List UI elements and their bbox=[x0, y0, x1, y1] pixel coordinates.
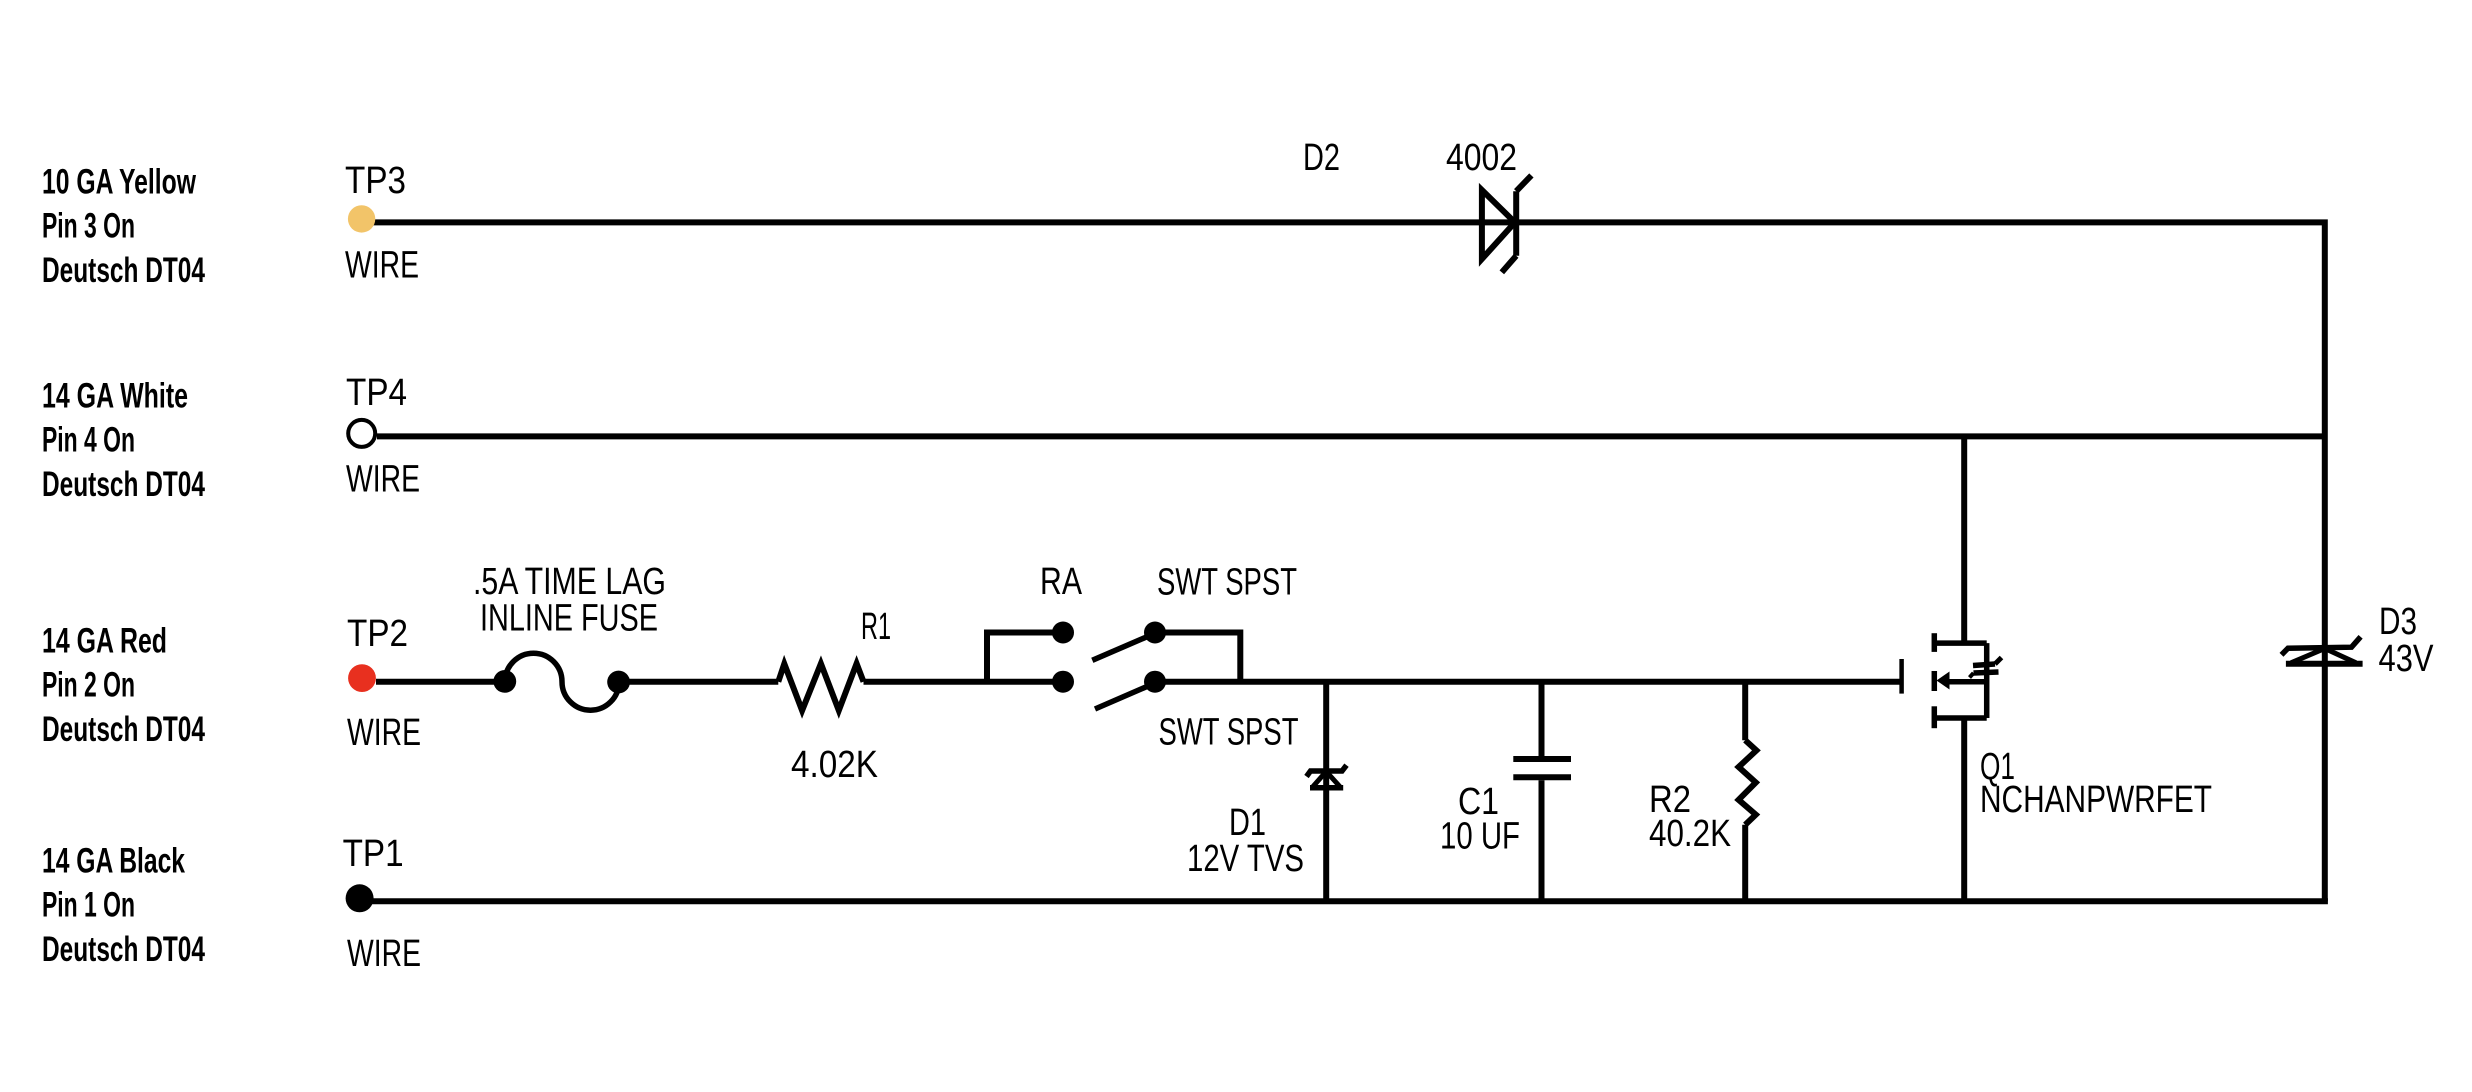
svg-text:4.02K: 4.02K bbox=[791, 744, 878, 786]
svg-text:14 GA White: 14 GA White bbox=[42, 376, 188, 415]
svg-text:WIRE: WIRE bbox=[347, 712, 421, 754]
svg-text:Deutsch DT04: Deutsch DT04 bbox=[42, 251, 205, 290]
svg-text:D2: D2 bbox=[1303, 137, 1340, 179]
svg-text:WIRE: WIRE bbox=[345, 245, 419, 287]
svg-text:14 GA Red: 14 GA Red bbox=[42, 622, 167, 661]
svg-text:Pin 1 On: Pin 1 On bbox=[42, 885, 135, 924]
svg-text:R1: R1 bbox=[861, 606, 891, 648]
svg-text:NCHANPWRFET: NCHANPWRFET bbox=[1980, 779, 2212, 821]
svg-text:INLINE FUSE: INLINE FUSE bbox=[480, 598, 658, 640]
svg-text:40.2K: 40.2K bbox=[1649, 813, 1731, 855]
svg-text:4002: 4002 bbox=[1446, 137, 1517, 179]
svg-text:TP3: TP3 bbox=[345, 160, 406, 202]
svg-text:D3: D3 bbox=[2379, 601, 2417, 643]
svg-text:14 GA Black: 14 GA Black bbox=[42, 841, 185, 880]
svg-text:Deutsch DT04: Deutsch DT04 bbox=[42, 710, 205, 749]
svg-text:Deutsch DT04: Deutsch DT04 bbox=[42, 465, 205, 504]
svg-text:TP4: TP4 bbox=[346, 372, 407, 414]
svg-text:SWT SPST: SWT SPST bbox=[1157, 562, 1297, 604]
svg-text:Pin 2 On: Pin 2 On bbox=[42, 666, 135, 705]
svg-text:Pin 3 On: Pin 3 On bbox=[42, 206, 135, 245]
svg-text:Deutsch DT04: Deutsch DT04 bbox=[42, 930, 205, 969]
svg-text:10 UF: 10 UF bbox=[1440, 816, 1520, 858]
svg-text:12V TVS: 12V TVS bbox=[1187, 838, 1304, 880]
svg-text:Pin 4 On: Pin 4 On bbox=[42, 420, 135, 459]
svg-text:TP2: TP2 bbox=[347, 613, 408, 655]
svg-text:RA: RA bbox=[1040, 561, 1083, 603]
svg-text:SWT SPST: SWT SPST bbox=[1159, 712, 1299, 754]
svg-text:TP1: TP1 bbox=[343, 833, 404, 875]
svg-text:WIRE: WIRE bbox=[346, 459, 420, 501]
svg-text:WIRE: WIRE bbox=[347, 933, 421, 975]
svg-text:43V: 43V bbox=[2379, 638, 2435, 680]
svg-text:10 GA Yellow: 10 GA Yellow bbox=[42, 162, 197, 201]
